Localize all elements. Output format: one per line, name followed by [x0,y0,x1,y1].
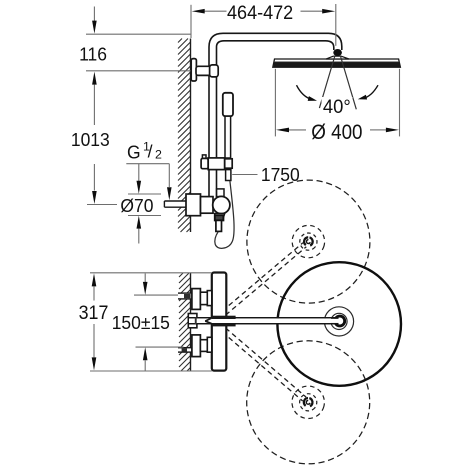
svg-text:1750: 1750 [261,164,300,185]
svg-text:Ø70: Ø70 [120,195,153,216]
svg-text:Ø 400: Ø 400 [311,121,362,144]
svg-text:150±15: 150±15 [112,313,170,334]
svg-text:40°: 40° [323,97,351,119]
svg-text:G: G [127,142,141,163]
svg-text:317: 317 [79,302,109,324]
svg-text:1013: 1013 [71,129,110,150]
svg-text:2: 2 [155,148,162,162]
svg-text:/: / [148,141,153,161]
svg-text:464-472: 464-472 [227,1,293,23]
svg-text:116: 116 [79,44,107,65]
